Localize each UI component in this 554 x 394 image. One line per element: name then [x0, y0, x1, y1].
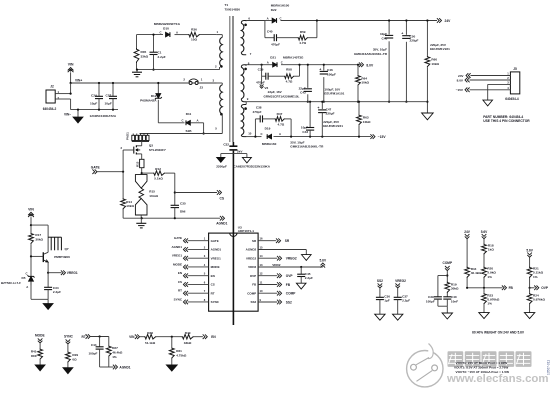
svg-text:1%: 1%	[533, 275, 538, 279]
wire FB node	[467, 287, 502, 289]
svg-text:OVP: OVP	[250, 274, 256, 278]
resistor R20 5.9kohm 1%	[482, 267, 487, 279]
resistor R36 10ohm	[188, 32, 200, 37]
snubber resistor R59 4.7ohm	[298, 35, 309, 40]
ground FB divider	[479, 313, 489, 319]
zener D5 BZT52C	[30, 275, 32, 277]
capacitor C45 2.2uF	[300, 266, 302, 268]
svg-text:C42: C42	[300, 91, 306, 95]
svg-text:VIN: VIN	[28, 207, 34, 211]
svg-text:RT: RT	[211, 291, 215, 295]
wire 24V to J5 pin1	[466, 73, 468, 78]
svg-text:SS2: SS2	[251, 300, 257, 304]
svg-text:R29: R29	[72, 353, 78, 357]
svg-text:FB: FB	[286, 283, 291, 287]
terminal AGND1 (RT)	[115, 365, 117, 370]
capacitor C39 100pF (comp)	[438, 275, 447, 277]
terminal 5.6V (VDD2)	[321, 263, 326, 265]
transformer secondary winding 3 (pins 9-10 -15V)	[241, 107, 244, 135]
svg-text:CS: CS	[211, 283, 215, 287]
svg-text:Q7: Q7	[65, 247, 69, 251]
capacitor C35 DNI	[171, 204, 179, 206]
svg-text:2kV: 2kV	[237, 149, 243, 153]
svg-text:VIN: VIN	[68, 63, 74, 67]
svg-text:GATE: GATE	[174, 236, 182, 240]
wire pin16 SR	[258, 240, 276, 242]
svg-text:1%: 1%	[487, 302, 492, 306]
svg-text:1%: 1%	[487, 275, 492, 279]
terminal CS (current sense)	[174, 191, 176, 193]
node 8V rectifier wire	[246, 64, 262, 66]
svg-text:VDD2: VDD2	[272, 263, 281, 267]
svg-text:S1B: S1B	[185, 129, 192, 133]
op-amp U3 ADP1071-1 body	[209, 233, 259, 311]
wire pin13 VDD2 to 5.6V	[258, 266, 323, 268]
svg-text:GATE: GATE	[91, 165, 101, 169]
pin 7 RT	[188, 292, 209, 294]
svg-text:AGND2: AGND2	[246, 248, 257, 252]
svg-text:10μF: 10μF	[90, 101, 97, 105]
svg-text:SS2: SS2	[286, 300, 292, 304]
svg-text:220μF: 220μF	[326, 112, 335, 116]
wire J5 pin3 to ground	[488, 83, 511, 85]
svg-text:RT: RT	[178, 289, 182, 293]
svg-text:+: +	[319, 67, 321, 71]
svg-text:VIN−: VIN−	[64, 113, 71, 117]
svg-text:10kΩ: 10kΩ	[361, 81, 369, 85]
transformer primary winding 2 (pins 3-5)	[220, 85, 223, 114]
resistor R31 4.75kohm	[171, 337, 173, 348]
svg-text:24V: 24V	[458, 74, 464, 78]
svg-text:VREG2: VREG2	[286, 257, 297, 261]
svg-text:60:40% WEIGHT ON 24V AND 5.6V: 60:40% WEIGHT ON 24V AND 5.6V	[472, 331, 525, 335]
resistor R14 10kohm	[122, 172, 124, 198]
snubber resistor R47 4.7ohm	[274, 117, 285, 122]
svg-text:STL2N10F7: STL2N10F7	[149, 148, 166, 152]
ground power stage	[140, 218, 142, 223]
ground C45	[296, 283, 306, 289]
snubber C39 470pF	[261, 64, 263, 66]
resistor R29 0ohm	[66, 351, 71, 363]
wire J2 pin1 to VIN+	[55, 93, 70, 95]
svg-text:MODE: MODE	[173, 262, 182, 266]
svg-text:A: A	[267, 60, 269, 64]
wire regulator ground	[31, 298, 48, 300]
svg-text:46.4kΩ: 46.4kΩ	[112, 350, 123, 354]
svg-text:COMP: COMP	[443, 261, 453, 265]
svg-text:R59: R59	[300, 30, 306, 34]
resistor R44 46.4kohm	[465, 267, 470, 279]
svg-text:VREG1: VREG1	[172, 254, 183, 258]
svg-text:GMK316ABJ106KL-TR: GMK316ABJ106KL-TR	[354, 52, 388, 56]
snubber C40 470pF	[264, 21, 266, 38]
svg-text:GATE: GATE	[211, 239, 219, 243]
wire VIN flag to VIN+ rail	[70, 72, 72, 83]
svg-text:Q3: Q3	[149, 144, 153, 148]
svg-text:4.7Ω: 4.7Ω	[278, 122, 285, 126]
ground snubber	[136, 70, 138, 73]
wire comp bottom	[438, 305, 447, 307]
svg-text:OVP: OVP	[286, 274, 294, 278]
svg-text:EN: EN	[178, 271, 182, 275]
ground VIN-	[77, 110, 79, 117]
svg-text:R63: R63	[363, 115, 369, 119]
svg-text:5.6V: 5.6V	[320, 259, 327, 263]
pin 6 CS	[188, 283, 209, 285]
svg-text:+: +	[401, 32, 403, 36]
svg-text:10μF: 10μF	[105, 101, 112, 105]
capacitor C47 220uF	[321, 102, 323, 110]
svg-text:4.7Ω: 4.7Ω	[299, 41, 306, 45]
svg-text:R15: R15	[149, 189, 155, 193]
zener D12 P6SMA42A	[157, 83, 159, 94]
resistor R18 1kohm	[482, 244, 487, 255]
svg-text:−15V: −15V	[456, 88, 464, 92]
svg-text:1kΩ: 1kΩ	[488, 248, 494, 252]
svg-text:R12: R12	[155, 167, 161, 171]
svg-text:10kΩ: 10kΩ	[126, 204, 134, 208]
svg-text:C1: C1	[158, 51, 162, 55]
ground AGND2	[302, 255, 312, 261]
svg-text:SYNC: SYNC	[64, 334, 74, 338]
svg-text:0.976kΩ: 0.976kΩ	[533, 298, 545, 302]
svg-text:1μF: 1μF	[384, 299, 390, 303]
wire clamp to switch node	[203, 123, 205, 134]
terminal FB (divider)	[504, 286, 506, 291]
svg-text:0Ω: 0Ω	[72, 357, 77, 361]
ground SYNC	[63, 368, 73, 374]
node AGND1 rail (power ground)	[123, 217, 220, 219]
svg-text:C39: C39	[258, 67, 264, 71]
svg-text:PART NUMBER: 640454-4: PART NUMBER: 640454-4	[483, 115, 523, 119]
svg-text:SYNC: SYNC	[174, 297, 183, 301]
pin 3 VREG1	[188, 257, 209, 259]
ground secondary (Y-cap)	[242, 157, 251, 163]
resistor R41 DNI	[38, 348, 43, 360]
svg-text:5.6V: 5.6V	[526, 248, 533, 252]
resistor R23 0.976kohm 1%	[483, 288, 485, 293]
capacitor C57 10uF	[112, 83, 114, 96]
resistor R27 46.4kohm 1%	[108, 337, 110, 346]
svg-text:COMP: COMP	[247, 291, 256, 295]
resistor R60 10kohm	[426, 21, 428, 56]
capacitor C24 10uF	[98, 83, 100, 96]
svg-text:R41: R41	[31, 349, 37, 353]
svg-text:DNI: DNI	[180, 210, 185, 214]
transformer primary winding 1 (pins 1-2)	[220, 37, 223, 66]
wire pin15 AGND2 to ground	[258, 249, 306, 251]
wire collector branch	[31, 224, 48, 226]
ground OVP divider	[524, 313, 534, 319]
resistor R17 30kohm	[30, 224, 32, 226]
svg-text:R49: R49	[185, 331, 191, 335]
svg-text:AGND1: AGND1	[211, 248, 222, 252]
svg-text:2200pF: 2200pF	[216, 165, 227, 169]
svg-text:C32: C32	[223, 143, 229, 147]
svg-text:4.75kΩ: 4.75kΩ	[176, 354, 187, 358]
svg-text:GRM31CR71A226ME15L: GRM31CR71A226ME15L	[264, 95, 300, 99]
svg-text:C: C	[181, 118, 183, 122]
transformer core	[229, 16, 231, 142]
resistor R24 0.976kohm	[529, 288, 531, 293]
node VIN- rail	[71, 109, 118, 111]
svg-text:470pF: 470pF	[253, 110, 262, 114]
capacitor C42 22uF	[307, 65, 309, 102]
power flag VIN (input)	[68, 68, 74, 71]
svg-text:R35: R35	[141, 50, 147, 54]
isolation barrier line	[232, 142, 234, 146]
wire snubber bottom	[137, 69, 220, 71]
svg-text:8.0V: 8.0V	[366, 63, 374, 67]
svg-text:24V: 24V	[445, 19, 452, 23]
snubber C38 470pF	[254, 119, 256, 137]
wire pin10 COMP	[258, 292, 277, 294]
svg-text:C: C	[260, 132, 262, 136]
svg-text:C40: C40	[267, 30, 273, 34]
diode D22 MBRA1H100	[272, 18, 276, 23]
pin 2 AGND1	[188, 248, 209, 250]
terminal -15V	[373, 134, 375, 139]
transistor Q7 symbol	[42, 252, 44, 262]
power flag VIN (regulator)	[28, 212, 34, 215]
svg-text:30kΩ: 30kΩ	[451, 287, 459, 291]
svg-text:D21: D21	[270, 55, 276, 59]
mosfet Q3 STL2N10F7	[141, 142, 143, 146]
resistor R13 (source)	[140, 159, 144, 167]
svg-text:14: 14	[260, 254, 263, 258]
capacitor C43 10uF	[309, 102, 311, 128]
svg-text:51.1kΩ: 51.1kΩ	[145, 341, 156, 345]
jumper J3 on VIN+ rail	[189, 82, 192, 85]
ground EN divider	[166, 365, 177, 371]
svg-text:5.6V: 5.6V	[481, 230, 488, 234]
terminal 24V	[439, 18, 441, 23]
capacitor C48 10uF	[388, 21, 390, 102]
svg-text:D10: D10	[163, 27, 169, 31]
svg-text:VOUT3: −15V AT 100mA Pout = 1.: VOUT3: −15V AT 100mA Pout = 1.5W	[456, 370, 510, 374]
node 24V rectifier wire	[246, 20, 265, 22]
svg-text:MODE: MODE	[211, 265, 220, 269]
svg-text:+: +	[317, 106, 319, 110]
wire pin14 VREG2	[258, 257, 277, 259]
transformer secondary winding 2 (pins 8-9 8V)	[241, 67, 244, 99]
connector J5 640454-4	[510, 72, 519, 94]
pin 1 GATE	[188, 240, 209, 242]
svg-text:1210BC106KAT2A: 1210BC106KAT2A	[90, 114, 117, 118]
ground C37	[393, 314, 403, 320]
svg-text:FB: FB	[509, 286, 514, 290]
wire -15V to J5 pin4	[465, 88, 467, 93]
svg-text:VREG1: VREG1	[211, 256, 222, 260]
svg-text:10mΩ: 10mΩ	[149, 194, 158, 198]
svg-text:13: 13	[260, 263, 263, 267]
svg-text:R64: R64	[361, 76, 367, 80]
svg-text:D19: D19	[265, 126, 271, 130]
svg-text:10Ω: 10Ω	[191, 38, 197, 42]
wire Y-cap to grounds	[221, 153, 247, 155]
svg-text:GMK316ABJ106KL-TR: GMK316ABJ106KL-TR	[290, 145, 324, 149]
svg-text:EEUFM1V221: EEUFM1V221	[323, 124, 343, 128]
capacitor C37 2.2uF	[394, 296, 402, 298]
terminal OVP (divider)	[529, 287, 531, 289]
resistor R12 5.1kohm	[142, 172, 153, 174]
svg-text:C: C	[281, 60, 283, 64]
svg-text:R60: R60	[431, 57, 437, 61]
svg-text:VREG2: VREG2	[246, 256, 257, 260]
svg-text:C: C	[280, 16, 282, 20]
svg-text:10μF: 10μF	[380, 32, 387, 36]
svg-text:R58: R58	[286, 68, 292, 72]
svg-text:470pF: 470pF	[256, 81, 265, 85]
svg-text:R27: R27	[112, 346, 118, 350]
diode D21 MBRA140T3G	[273, 62, 277, 67]
wire RT bottom to AGND1	[100, 366, 114, 368]
pin 5 EN	[188, 275, 209, 277]
svg-text:D11: D11	[186, 112, 192, 116]
wire pin12 OVP	[258, 275, 277, 277]
svg-text:2.2μF: 2.2μF	[53, 290, 61, 294]
svg-text:−15V: −15V	[378, 135, 387, 139]
svg-text:D5: D5	[22, 276, 26, 280]
svg-text:C57: C57	[106, 94, 112, 98]
svg-text:16: 16	[260, 237, 263, 241]
svg-text:2.2μF: 2.2μF	[158, 55, 166, 59]
svg-text:1%: 1%	[112, 355, 117, 359]
resistor R63 10kohm	[358, 102, 360, 115]
resistor R64 10kohm	[357, 65, 359, 75]
svg-text:640454-2: 640454-2	[43, 107, 57, 111]
capacitor C1 2.2uF	[153, 35, 155, 53]
svg-text:A: A	[267, 16, 269, 20]
diode D11 S1B	[158, 122, 184, 124]
svg-text:750014836: 750014836	[225, 8, 241, 12]
terminal VREG1	[47, 272, 49, 274]
svg-text:MBRA160: MBRA160	[262, 142, 277, 146]
svg-text:C24: C24	[91, 94, 97, 98]
svg-text:PMBT3906: PMBT3906	[54, 255, 70, 259]
svg-text:R17: R17	[35, 233, 41, 237]
probe V6	[261, 76, 263, 84]
svg-text:OVP: OVP	[541, 286, 549, 290]
ground primary (Y-cap)	[217, 157, 225, 162]
diode D10 MBR2H200SFT1G	[166, 32, 170, 37]
svg-text:R13: R13	[136, 161, 140, 167]
svg-text:R28: R28	[147, 331, 153, 335]
svg-text:10nF: 10nF	[451, 299, 458, 303]
transformer secondary winding 1 (pins 6-7 24V)	[241, 23, 244, 52]
capacitor C34 2.2uF	[47, 273, 49, 288]
svg-text:10: 10	[248, 131, 252, 135]
svg-text:10kΩ: 10kΩ	[363, 120, 371, 124]
svg-text:100pF: 100pF	[88, 352, 97, 356]
ground MODE	[35, 365, 45, 371]
svg-text:AGND1: AGND1	[171, 245, 182, 249]
svg-text:24V: 24V	[464, 230, 471, 234]
ground 24V output	[422, 113, 434, 120]
svg-text:PAD1: PAD1	[126, 132, 130, 140]
wire J2 pin2 to VIN-	[55, 98, 70, 100]
svg-text:33kΩ: 33kΩ	[184, 341, 192, 345]
svg-text:J2: J2	[50, 85, 54, 89]
capacitor C32 2200pF 2kV Y-cap	[229, 145, 237, 147]
svg-text:22μF, 16V: 22μF, 16V	[268, 90, 283, 94]
terminal EN	[205, 334, 207, 339]
svg-text:A: A	[197, 118, 199, 122]
diode D19 MBRA160	[267, 134, 271, 139]
svg-text:100μF: 100μF	[327, 72, 336, 76]
svg-text:C43: C43	[302, 130, 308, 134]
ground J5	[483, 100, 493, 106]
wire snubber top	[137, 34, 164, 36]
connector J2	[46, 90, 55, 103]
svg-text:A: A	[26, 285, 28, 289]
svg-text:C48: C48	[382, 36, 388, 40]
svg-text:D22: D22	[271, 8, 277, 12]
svg-text:220μF: 220μF	[410, 39, 419, 43]
svg-text:MBRA140T3G: MBRA140T3G	[283, 55, 304, 59]
svg-text:12: 12	[260, 272, 263, 276]
svg-text:46.4kΩ: 46.4kΩ	[471, 271, 482, 275]
watermark logo circle	[407, 344, 443, 387]
resistor R19 30kohm	[446, 274, 448, 276]
capacitor C46 100uF	[323, 65, 325, 102]
svg-text:VREG1: VREG1	[67, 271, 78, 275]
svg-text:CS: CS	[220, 196, 225, 200]
svg-text:C44: C44	[91, 343, 97, 347]
svg-text:www.elecfans.com: www.elecfans.com	[446, 373, 549, 385]
svg-text:C: C	[25, 272, 27, 276]
svg-text:2.2μF: 2.2μF	[402, 299, 410, 303]
svg-text:VOUT2: 8.0V AT 350mA Pout = 2.: VOUT2: 8.0V AT 350mA Pout = 2.76W	[454, 366, 508, 370]
svg-text:EN: EN	[211, 335, 216, 339]
svg-text:100pF: 100pF	[426, 299, 435, 303]
transistor Q7 PMBT3906 package bars	[48, 236, 61, 238]
svg-text:10kΩ: 10kΩ	[431, 62, 439, 66]
svg-text:MBR2H200SFT1G: MBR2H200SFT1G	[154, 22, 181, 26]
svg-text:J3: J3	[200, 86, 204, 90]
svg-text:VDD2: VDD2	[248, 265, 256, 269]
terminal AGND1 (rail)	[222, 216, 224, 221]
shunt resistor R15 10mohm	[141, 172, 143, 174]
svg-text:10: 10	[260, 289, 263, 293]
svg-text:BZT52C-H-7-F: BZT52C-H-7-F	[1, 281, 21, 285]
svg-text:R31: R31	[176, 349, 182, 353]
svg-text:P6SMA42A: P6SMA42A	[140, 98, 157, 102]
svg-text:AGND1: AGND1	[119, 365, 130, 369]
svg-text:J5: J5	[513, 67, 517, 71]
svg-text:VIN: VIN	[129, 335, 135, 339]
capacitor C36 1uF	[376, 296, 384, 298]
svg-text:640454-4: 640454-4	[505, 97, 519, 101]
svg-text:8.0V: 8.0V	[457, 78, 464, 82]
svg-text:5.1kΩ: 5.1kΩ	[154, 176, 163, 180]
svg-text:EN: EN	[211, 274, 215, 278]
svg-text:33kΩ: 33kΩ	[141, 55, 149, 59]
svg-text:MODE: MODE	[35, 333, 45, 337]
snubber resistor R58 4.7ohm	[284, 74, 295, 79]
wire Q3 gate to GATE net	[123, 149, 134, 151]
resistor R28 51.1kohm	[144, 334, 157, 339]
svg-text:DNI: DNI	[31, 354, 36, 358]
svg-text:VREG2: VREG2	[395, 279, 406, 283]
svg-text:VOUT1: 24V AT 80mA Pout = 1.92: VOUT1: 24V AT 80mA Pout = 1.92W	[456, 361, 508, 365]
svg-text:COMP: COMP	[286, 292, 296, 296]
svg-text:D12: D12	[151, 94, 157, 98]
svg-text:VIN+: VIN+	[75, 79, 82, 83]
svg-text:CA682X7R3D222N130KA: CA682X7R3D222N130KA	[233, 165, 270, 169]
terminal 8.0V	[361, 62, 363, 67]
svg-text:30kΩ: 30kΩ	[35, 238, 43, 242]
